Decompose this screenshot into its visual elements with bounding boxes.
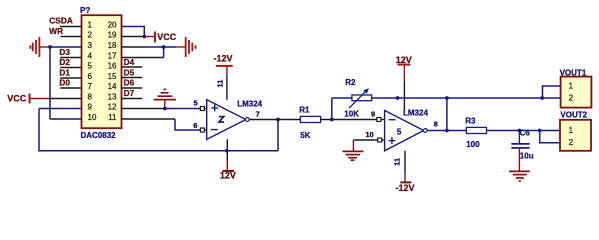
- svg-text:7: 7: [256, 110, 260, 119]
- potentiometer R2: [344, 78, 371, 119]
- wire vertical x278 feedback to output: [277, 120, 279, 151]
- wire R1 to opamp2 pin9: [321, 119, 377, 121]
- svg-text:9: 9: [371, 109, 375, 118]
- svg-text:D0: D0: [59, 77, 70, 87]
- capacitor C6: [511, 128, 533, 160]
- svg-text:5: 5: [397, 127, 402, 136]
- svg-text:11: 11: [392, 158, 401, 166]
- node junction VOUT1: [540, 96, 544, 100]
- wire pin1 CSDA stub: [60, 26, 82, 28]
- svg-text:12V: 12V: [220, 170, 236, 180]
- minus sign top: [389, 119, 396, 121]
- wire pin9 to left: [39, 108, 82, 110]
- pin pad 9: [377, 118, 381, 122]
- svg-text:5K: 5K: [300, 131, 310, 140]
- svg-text:R3: R3: [465, 117, 476, 126]
- node junction output: [445, 129, 449, 133]
- power 12V top of opamp2: [396, 55, 412, 110]
- wire pin14 D6 stub: [122, 87, 143, 89]
- node junction R1/R2 branch: [330, 118, 334, 122]
- wire VOUT2 pins jog: [540, 130, 560, 132]
- ground right AGND symbol: [186, 37, 196, 57]
- svg-text:19: 19: [108, 31, 117, 40]
- wire opamp2 output: [427, 130, 447, 132]
- wire pin12 to opamp1 pin5: [122, 108, 166, 110]
- svg-text:LM324: LM324: [237, 100, 262, 109]
- wire pin11 jog to opamp1 pin6: [122, 118, 176, 120]
- wire feedback bottom run: [38, 150, 278, 152]
- node junction top run: [445, 96, 449, 100]
- resistor R3: [465, 117, 486, 150]
- svg-text:C6: C6: [520, 128, 531, 137]
- output bubble: [245, 118, 249, 122]
- plus sign bottom: [389, 140, 396, 142]
- ground GND below C6: [509, 171, 530, 181]
- wire pin3 to ground junction: [50, 46, 82, 48]
- wire VOUT1 pins jog: [543, 86, 561, 98]
- svg-text:2: 2: [569, 138, 574, 147]
- power VCC right symbol: [155, 32, 177, 43]
- wire ground to junction: [39, 46, 50, 48]
- svg-text:DAC0832: DAC0832: [81, 131, 117, 140]
- svg-text:8: 8: [88, 93, 93, 102]
- node junction feedback crossing: [225, 149, 229, 153]
- wire VCC to pin8 red part: [30, 98, 51, 100]
- wire pin10 to ground: [353, 139, 377, 141]
- svg-text:14: 14: [108, 82, 117, 91]
- node junction pin3/pin10 ground: [48, 45, 52, 49]
- wire pin19 stub: [122, 36, 145, 38]
- svg-text:VOUT2: VOUT2: [560, 111, 587, 120]
- svg-text:D4: D4: [124, 57, 135, 67]
- wire vertical x39 feedback: [38, 109, 40, 151]
- wire pin15 D5 stub: [122, 77, 143, 79]
- svg-text:D1: D1: [59, 67, 70, 77]
- wire pin2 WR stub: [60, 36, 81, 38]
- op-amp U2 LM324 unit 5 triangle: [385, 110, 428, 150]
- wire R3 to C6 junction: [487, 130, 540, 132]
- svg-text:D7: D7: [124, 88, 135, 98]
- svg-text:9: 9: [88, 103, 93, 112]
- wire to VCC bar red: [144, 36, 155, 38]
- minus sign: [211, 129, 218, 131]
- resistor R1: [299, 105, 320, 139]
- node junction feedback/output: [276, 118, 280, 122]
- pin pad 6: [200, 128, 204, 132]
- DAC0832 chip P? body: [82, 15, 122, 128]
- node junction VOUT2: [538, 129, 542, 133]
- svg-text:15: 15: [108, 72, 117, 81]
- svg-text:D6: D6: [124, 77, 135, 87]
- op-amp U1 LM324 unit 2 triangle: [207, 100, 250, 140]
- svg-text:1: 1: [569, 126, 574, 135]
- svg-text:16: 16: [108, 62, 117, 71]
- connector VOUT2: [560, 111, 591, 151]
- svg-text:5: 5: [194, 99, 198, 108]
- pin pad 5: [200, 107, 204, 111]
- svg-text:LM324: LM324: [403, 109, 428, 118]
- wire pin20 jog: [122, 27, 145, 37]
- wire pin18: [122, 46, 148, 48]
- power VCC left symbol: [7, 93, 29, 103]
- wire vertical output to top run: [446, 98, 448, 131]
- svg-text:8: 8: [434, 119, 438, 128]
- svg-text:R1: R1: [299, 105, 310, 114]
- svg-text:R2: R2: [345, 78, 356, 87]
- wire vertical x50 pin3 to pin10: [49, 47, 51, 119]
- node junction pin17/18: [162, 45, 166, 49]
- wire output to R3: [447, 130, 467, 132]
- svg-text:VCC: VCC: [157, 32, 177, 42]
- connector VOUT1: [560, 69, 592, 108]
- svg-text:18: 18: [108, 41, 117, 50]
- power -12V bottom of opamp2: [396, 151, 415, 193]
- wire pin5 D2 stub: [60, 67, 81, 69]
- svg-text:-12V: -12V: [396, 183, 415, 193]
- node junction C6: [518, 129, 522, 133]
- svg-text:13: 13: [108, 93, 117, 102]
- wire pin13 D7 stub: [122, 98, 143, 100]
- svg-text:17: 17: [108, 52, 117, 61]
- wire pin6 D1 stub: [60, 77, 81, 79]
- svg-text:CSDA: CSDA: [49, 16, 73, 26]
- svg-text:2: 2: [569, 94, 574, 103]
- svg-text:10: 10: [365, 130, 373, 139]
- svg-text:1: 1: [569, 81, 574, 90]
- wire R2 right to VOUT1 run: [372, 97, 543, 99]
- svg-text:5: 5: [88, 62, 93, 71]
- svg-text:6: 6: [88, 72, 93, 81]
- node junction near 12V stem: [396, 96, 400, 100]
- svg-text:10u: 10u: [520, 151, 534, 160]
- chip pin numbers left column: [88, 21, 97, 123]
- wire to R2 left: [332, 97, 352, 99]
- svg-text:D5: D5: [124, 67, 135, 77]
- unit number 2 drawn Z-like: [219, 117, 224, 123]
- wire pin10: [50, 118, 82, 120]
- svg-text:11: 11: [108, 113, 117, 122]
- wire pin17 jog: [122, 57, 164, 59]
- output bubble: [424, 129, 428, 133]
- svg-text:-12V: -12V: [214, 53, 233, 63]
- pin pad 10: [378, 138, 382, 142]
- wire C6 to ground: [518, 149, 520, 171]
- svg-text:10: 10: [88, 113, 97, 122]
- wire pin16 D4 stub: [122, 66, 143, 68]
- svg-text:WR: WR: [49, 26, 63, 36]
- wire opamp1 output to R1: [249, 119, 300, 121]
- power -12V top of opamp1: [214, 53, 233, 100]
- svg-text:VCC: VCC: [7, 93, 27, 103]
- wire vertical to R2: [331, 98, 333, 120]
- power 12V bottom of opamp1: [220, 139, 236, 180]
- ground GND below opamp2 plus input: [342, 140, 363, 160]
- svg-text:1: 1: [88, 21, 93, 30]
- svg-text:20: 20: [108, 21, 117, 30]
- svg-text:D2: D2: [59, 57, 70, 67]
- svg-text:11: 11: [215, 80, 224, 88]
- node junction pin19/20: [142, 35, 146, 39]
- svg-text:D3: D3: [59, 47, 70, 57]
- svg-text:6: 6: [193, 121, 197, 130]
- chip pin numbers right column: [108, 21, 117, 123]
- ground left AGND symbol: [30, 37, 39, 57]
- wire pin7 D0 stub: [60, 87, 81, 89]
- svg-text:7: 7: [88, 82, 93, 91]
- svg-text:4: 4: [88, 52, 93, 61]
- svg-text:12: 12: [108, 103, 117, 112]
- svg-text:3: 3: [88, 41, 93, 50]
- wire pin8 black part: [50, 98, 81, 100]
- svg-text:100: 100: [466, 140, 480, 149]
- wire pin4 D3 stub: [60, 57, 81, 59]
- plus sign: [211, 107, 218, 109]
- svg-text:P?: P?: [80, 6, 90, 15]
- svg-text:10K: 10K: [344, 109, 359, 118]
- ground GND inverted on pin12 wire: [154, 89, 176, 108]
- node junction ground/pin12 wire: [163, 107, 167, 111]
- svg-text:2: 2: [88, 31, 93, 40]
